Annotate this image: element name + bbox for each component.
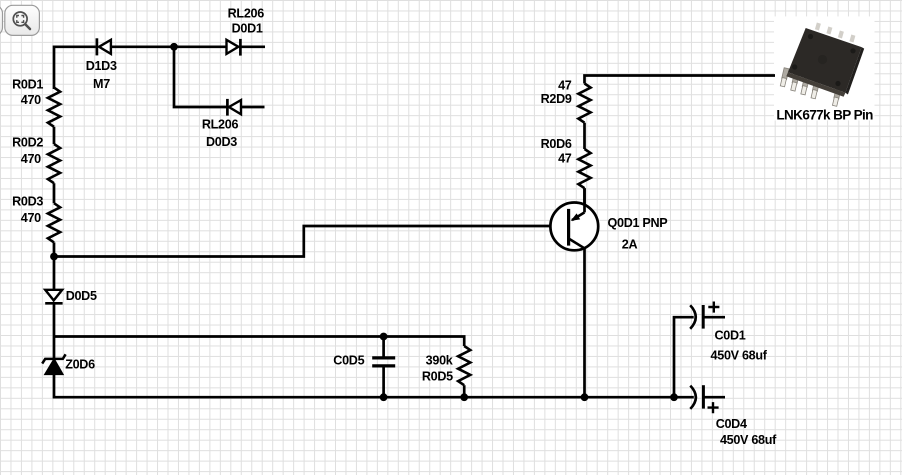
- wire R0D2-R0D3: [53, 183, 56, 203]
- wire R0D3 to junction: [53, 242, 56, 256]
- svg-text:RL206: RL206: [228, 6, 265, 20]
- capacitor C0D1: [690, 302, 725, 329]
- resistor R0D3: [48, 203, 60, 242]
- wire transistor base to left junction: [54, 226, 569, 257]
- svg-text:R0D6: R0D6: [541, 137, 572, 151]
- wire junction down to D0D3: [174, 47, 228, 107]
- svg-text:450V 68uf: 450V 68uf: [720, 433, 777, 447]
- junction C0D5 bottom: [380, 393, 388, 401]
- wire D0D3 to end: [241, 106, 265, 109]
- wire top-left corner to R0D1: [54, 47, 96, 89]
- resistor R0D1: [48, 88, 60, 127]
- resistor R2D9: [578, 84, 590, 123]
- svg-text:Q0D1 PNP: Q0D1 PNP: [608, 216, 668, 230]
- capacitor C0D5: [372, 337, 395, 398]
- svg-text:R0D2: R0D2: [12, 135, 43, 149]
- wire D0D5 to Z0D6: [53, 303, 56, 359]
- resistor R0D5: [458, 346, 470, 385]
- wire C0D1 riser: [674, 317, 694, 397]
- svg-text:M7: M7: [93, 77, 110, 91]
- svg-text:D0D5: D0D5: [66, 289, 97, 303]
- svg-text:470: 470: [21, 211, 41, 225]
- transistor Q0D1: [550, 188, 598, 250]
- junction top diode node: [170, 43, 178, 51]
- wire D1D3 to top junction: [111, 45, 174, 48]
- diode D0D1: [227, 39, 241, 56]
- diode D1D3: [97, 38, 111, 55]
- svg-text:R0D5: R0D5: [422, 370, 453, 384]
- svg-text:R0D3: R0D3: [12, 194, 43, 208]
- wire D0D1 to end: [240, 45, 265, 48]
- zener Z0D6: [42, 354, 65, 374]
- wire R0D5 bottom lead: [463, 385, 466, 397]
- svg-text:D1D3: D1D3: [86, 59, 117, 73]
- svg-text:LNK677k BP Pin: LNK677k BP Pin: [776, 107, 873, 122]
- bottom gull-wing pins: [780, 68, 841, 107]
- junction transistor-rail: [581, 393, 589, 401]
- junction R0D5 bottom: [460, 393, 468, 401]
- junction C0D5 top: [380, 333, 388, 341]
- package body: [786, 28, 864, 97]
- junction C0D4 branch: [670, 393, 678, 401]
- svg-text:D0D3: D0D3: [206, 135, 237, 149]
- zoom button: [5, 5, 40, 35]
- diode D0D5: [45, 290, 62, 304]
- svg-text:47: 47: [558, 78, 572, 92]
- resistor R0D6: [578, 149, 590, 188]
- wire R2D9 to R0D6: [583, 123, 586, 149]
- wire top-right corner to photo: [585, 76, 776, 84]
- wire mid rail to R0D5: [54, 337, 464, 347]
- wire R0D1-R0D2: [53, 127, 56, 144]
- svg-text:470: 470: [21, 93, 41, 107]
- svg-text:R0D1: R0D1: [12, 78, 43, 92]
- svg-text:C0D1: C0D1: [715, 329, 746, 343]
- svg-text:Z0D6: Z0D6: [65, 358, 95, 372]
- svg-text:470: 470: [21, 152, 41, 166]
- svg-text:2A: 2A: [622, 237, 638, 251]
- wire Z0D6 to bottom rail and rail to C0D4: [54, 374, 694, 397]
- wire junction to D0D5: [53, 257, 56, 291]
- wire transistor emitter to bottom rail: [583, 248, 586, 398]
- resistor R0D2: [48, 144, 60, 183]
- capacitor C0D4: [690, 385, 725, 413]
- svg-text:C0D5: C0D5: [333, 354, 364, 368]
- svg-text:RL206: RL206: [202, 117, 239, 131]
- partial button at left edge: [0, 5, 3, 35]
- IC LNK677k BP Pin (photo): [774, 16, 875, 122]
- svg-text:D0D1: D0D1: [232, 21, 263, 35]
- wire R0D6 to transistor: [583, 188, 586, 212]
- top side pin stubs: [815, 23, 855, 43]
- svg-text:450V 68uf: 450V 68uf: [711, 348, 768, 362]
- junction at R0D3 bottom: [50, 253, 58, 261]
- wire junction to D0D1: [174, 45, 227, 48]
- svg-text:390k: 390k: [426, 354, 454, 368]
- svg-text:R2D9: R2D9: [541, 92, 572, 106]
- diode D0D3: [227, 99, 241, 116]
- svg-text:47: 47: [558, 152, 572, 166]
- svg-text:C0D4: C0D4: [716, 417, 747, 431]
